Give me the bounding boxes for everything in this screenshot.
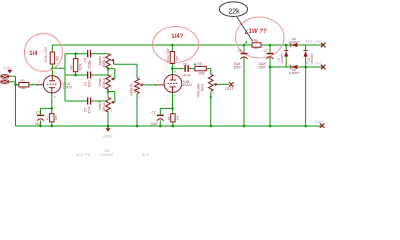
svg-text:R5: R5 (197, 62, 201, 66)
node pot2-pot3 junction (107, 90, 110, 93)
svg-text:22µF: 22µF (151, 122, 158, 126)
wire GANHO wiper to V1-B grid (143, 84, 164, 86)
svg-text:R1: R1 (21, 79, 25, 83)
svg-text:3: 3 (54, 95, 56, 99)
svg-text:1k5: 1k5 (54, 115, 58, 120)
svg-text:OUT: OUT (225, 86, 234, 91)
wire coupling row (172, 69, 210, 75)
svg-text:6: 6 (174, 70, 176, 74)
annotation circle 1W PSU (235, 17, 284, 58)
svg-text:8: 8 (174, 94, 176, 98)
svg-text:47nF: 47nF (88, 106, 92, 113)
capacitor C1 22uF (35, 110, 44, 126)
svg-text:R4: R4 (70, 65, 74, 69)
node AC2_HV flag (305, 61, 325, 70)
wire ground rail (16, 125, 323, 127)
capacitor C8 47nF (183, 62, 191, 77)
svg-text:C5: C5 (83, 108, 87, 112)
resistor R5 220k (194, 62, 206, 75)
annotation circle 1/4? stage2 (153, 27, 199, 63)
wire pot1 wiper to GANHO (114, 64, 137, 78)
resistor R1 (19, 79, 29, 90)
wire volume wiper to OUT (216, 83, 228, 85)
node bridge top-left junction (285, 44, 288, 47)
wire V1-B plate (171, 45, 173, 75)
capacitor C6 33uF 350V (233, 44, 247, 128)
node plate V1-B junction (171, 67, 174, 70)
resistor R4 slope (70, 54, 83, 75)
wire pot3 to ground (107, 111, 109, 126)
svg-text:500K-A: 500K-A (102, 56, 106, 68)
svg-text:1/4?: 1/4? (171, 34, 183, 40)
svg-text:250K-A: 250K-A (102, 77, 106, 89)
wire grid row stage1 (16, 84, 44, 86)
svg-text:1: 1 (54, 71, 56, 75)
wire pot2 wiper tie (108, 69, 115, 79)
svg-text:C2: C2 (152, 110, 156, 114)
wire GANHO bottom to ground (136, 94, 138, 126)
wire V1-A cathode (41, 93, 52, 126)
node rail junction V1-B (171, 44, 174, 47)
wire tone row2 (65, 74, 108, 76)
potentiometer Medio 10K-A (98, 96, 114, 112)
svg-text:AC1 FIL: AC1 FIL (76, 153, 91, 157)
svg-text:100k / 1W: 100k / 1W (44, 46, 48, 62)
wire pot1-pot2 link (107, 67, 109, 75)
svg-text:AC2_HV: AC2_HV (305, 61, 321, 66)
wire tone row3 (65, 100, 107, 102)
node pot3 ground junction (107, 125, 110, 128)
tube V1-A (43, 76, 72, 93)
ground GND flag at input (3, 65, 12, 74)
wire bridge right (305, 45, 307, 126)
svg-text:R6: R6 (167, 116, 171, 120)
resistor R7 plate 100k/1W (166, 48, 180, 64)
svg-text:1k5: 1k5 (175, 115, 179, 120)
svg-text:1/4: 1/4 (29, 51, 38, 57)
potentiometer Grave 250K-A (98, 74, 114, 90)
svg-text:1N4007: 1N4007 (289, 71, 300, 75)
node GND flag right (314, 119, 324, 128)
svg-text:100k: 100k (79, 63, 83, 70)
svg-text:R3: R3 (46, 116, 50, 120)
resistor R8 2k2 (245, 39, 261, 50)
svg-text:2k2: 2k2 (254, 46, 259, 50)
capacitor C3 (84, 50, 92, 69)
svg-text:220k: 220k (198, 71, 205, 75)
capacitor C4 (83, 71, 91, 87)
node C1 rail junction (39, 125, 42, 128)
node pot1-pot2 junction (107, 67, 110, 70)
svg-text:12AX7: 12AX7 (182, 83, 192, 87)
svg-text:47nF: 47nF (183, 74, 190, 78)
resistor R3 cathode (46, 114, 58, 122)
svg-text:B+0: B+0 (142, 153, 149, 157)
wire B+ rail (52, 44, 322, 46)
svg-text:350V: 350V (233, 65, 241, 69)
node R4 bottom (74, 74, 77, 77)
node input junction (14, 83, 17, 86)
potentiometer Agudo 500K-A (98, 52, 114, 68)
wire volume bottom to ground (210, 92, 212, 126)
node V1-B cathode junction (171, 107, 174, 110)
svg-text:C8: C8 (183, 62, 187, 66)
node plate V1-A junction (51, 67, 54, 70)
diode D1 1N4007 left (277, 50, 289, 63)
potentiometer VOLUME 1M-A (197, 74, 217, 97)
wire input to vertical (9, 76, 16, 126)
diode D6 1N4007 top (289, 37, 300, 47)
wire tone row1 (65, 53, 108, 55)
wire V1-B cathode (160, 93, 173, 127)
potentiometer GANHO 1M-A (129, 75, 142, 98)
svg-text:GND: GND (314, 119, 323, 124)
svg-text:C6: C6 (238, 49, 242, 53)
svg-text:R2: R2 (56, 56, 60, 60)
svg-text:AC1_HV: AC1_HV (305, 38, 321, 43)
svg-text:GND: GND (3, 65, 12, 70)
svg-text:1N4007: 1N4007 (280, 53, 284, 64)
annotation ellipse 22k (219, 2, 253, 42)
svg-text:1M-A: 1M-A (133, 85, 137, 93)
svg-text:100n: 100n (88, 80, 92, 87)
svg-text:2200p: 2200p (87, 60, 91, 69)
resistor R6 cathode (167, 114, 179, 122)
capacitor C2 22uF (151, 110, 164, 126)
svg-text:C7: C7 (264, 49, 268, 53)
svg-text:22k: 22k (228, 9, 240, 16)
svg-text:R7: R7 (176, 56, 180, 60)
diode D2 1N4007 bottom (289, 65, 300, 75)
svg-text:12AX7: 12AX7 (62, 85, 72, 89)
svg-text:10K-A: 10K-A (102, 102, 106, 112)
wire V1-A plate (51, 45, 53, 76)
node AC1_HV flag (305, 38, 325, 47)
annotation circle 1/4 stage1 (24, 33, 62, 71)
svg-text:1N4007: 1N4007 (289, 40, 300, 44)
wire bridge bottom (270, 66, 322, 68)
node R3 rail junction (51, 125, 54, 128)
resistor R2 plate 100k/1W (44, 46, 60, 64)
ground GND flag mid (103, 126, 112, 139)
svg-text:C1: C1 (36, 110, 40, 114)
node OUT X flag (225, 82, 234, 91)
svg-text:7: 7 (157, 80, 159, 84)
wire pot3 wiper tie (108, 92, 115, 103)
capacitor C5 (83, 97, 91, 113)
wire plate jog to tone stack (52, 54, 65, 101)
svg-text:GND: GND (103, 134, 112, 139)
wire bridge left (285, 45, 287, 67)
svg-text:350V: 350V (258, 65, 266, 69)
svg-text:2: 2 (38, 80, 40, 84)
svg-text:1M-A: 1M-A (201, 83, 205, 91)
svg-text:1N4007: 1N4007 (100, 153, 113, 157)
connector X1 input pads (1, 74, 9, 84)
wire pot2-pot3 link (107, 88, 109, 97)
diode D5 1N4007 right (304, 50, 315, 63)
capacitor C7 33uF 350V (258, 44, 273, 128)
svg-text:R8: R8 (254, 39, 258, 43)
tube V1-B (164, 75, 193, 93)
svg-text:68k: 68k (21, 86, 27, 90)
svg-text:C4: C4 (83, 82, 87, 86)
node cathode row junction (51, 107, 54, 110)
node R4 top (74, 52, 77, 55)
